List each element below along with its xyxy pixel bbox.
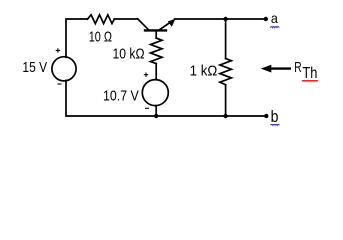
svg-text:Th: Th [302,65,317,82]
svg-text:1 kΩ: 1 kΩ [190,63,218,79]
svg-text:b: b [271,108,279,126]
svg-text:a: a [271,10,278,26]
svg-text:10 Ω: 10 Ω [89,30,112,46]
svg-text:15 V: 15 V [22,60,47,76]
svg-text:10 kΩ: 10 kΩ [113,46,145,62]
svg-text:10.7 V: 10.7 V [103,89,139,105]
svg-text:R: R [294,59,302,76]
